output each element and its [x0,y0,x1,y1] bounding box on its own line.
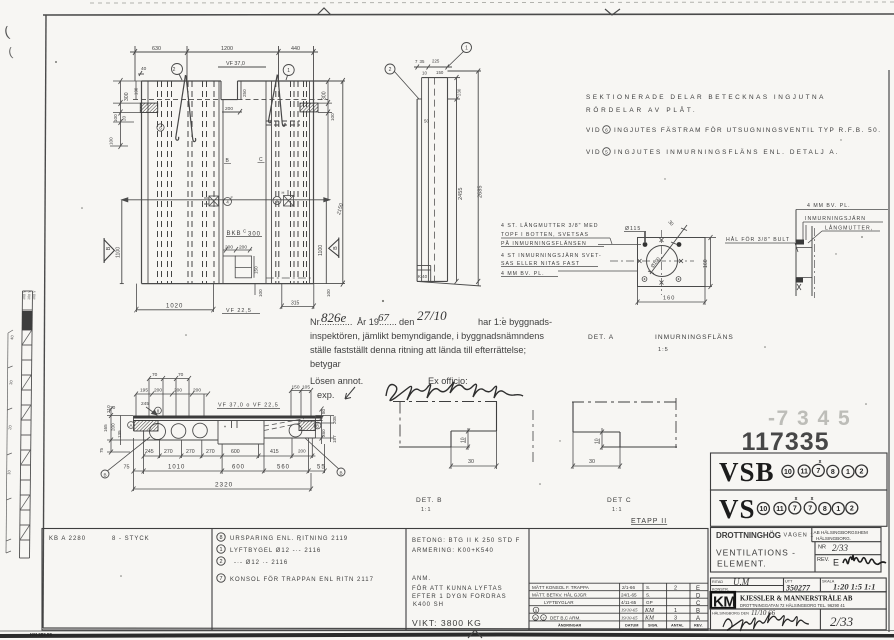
svg-text:4 MM BV. PL.: 4 MM BV. PL. [807,203,851,209]
svg-text:1: 1 [219,547,222,553]
svg-text:RITAD: RITAD [712,580,723,584]
svg-text:225: 225 [432,59,440,64]
right-side dim chain ticks [314,78,333,200]
svg-text:inspektören, jämlikt bemyndiga: inspektören, jämlikt bemyndigande, i byg… [310,331,544,341]
VF 37,0 underline [218,66,266,68]
svg-text:HÄLSINGBORG DEN: HÄLSINGBORG DEN [712,612,749,616]
svg-text:MÄTT. BETKV. HÅL GJGR: MÄTT. BETKV. HÅL GJGR [532,592,587,598]
svg-text:REV.: REV. [817,557,830,563]
svg-text:2: 2 [860,469,864,476]
center lines [610,230,694,295]
svg-text:250: 250 [242,89,247,97]
svg-text:BKB: BKB [227,231,242,237]
svg-text:5: 5 [605,150,608,156]
scan top edge dotted [90,2,894,3]
svg-text:SIGN.: SIGN. [648,624,658,628]
hatched right end [299,421,315,431]
svg-text:280: 280 [321,429,326,437]
svg-text:INGJUTES FÄSTRAM FÖR UTSUGN: INGJUTES FÄSTRAM FÖR UTSUGNINGSVENTIL TY… [614,126,882,134]
svg-text:B: B [103,472,106,477]
svg-text:KM: KM [713,594,735,611]
svg-text:8 - STYCK: 8 - STYCK [112,536,150,542]
svg-text:70: 70 [178,372,184,378]
svg-text:x: x [819,459,822,465]
dashed diagonals [264,419,304,431]
svg-text:PÅ INMURNINGSFLÄNSEN: PÅ INMURNINGSFLÄNSEN [501,240,587,247]
svg-text:VS: VS [719,494,756,524]
top dim line 630/1200/440 [130,51,318,53]
svg-text:200: 200 [298,449,306,454]
svg-text:KM: KM [644,616,655,622]
svg-text:2: 2 [173,67,176,73]
svg-text:,: , [540,617,541,622]
svg-text:30: 30 [468,459,474,465]
circled list [217,533,225,582]
svg-text:19/10-65: 19/10-65 [621,608,638,613]
top dim labels [141,46,300,112]
245 arrow [146,407,157,415]
svg-text:INMURNINGSFLÄNS: INMURNINGSFLÄNS [655,333,734,341]
top dim line [414,66,452,68]
hatched block left [140,103,157,112]
svg-text:80: 80 [321,408,326,414]
svg-text:30: 30 [589,459,595,465]
lifting loop right (inverted V with hooks) [269,75,278,123]
right dim 160 [705,235,716,289]
svg-text:U.M: U.M [733,577,750,587]
svg-text:VF 37,0 o VF 22,5: VF 37,0 o VF 22,5 [218,403,279,409]
svg-text:160: 160 [663,296,675,302]
svg-text:440: 440 [291,46,300,52]
svg-text:VSB: VSB [719,457,775,487]
bolt holes [643,242,648,247]
svg-text:VID: VID [586,149,601,156]
svg-text:E: E [833,558,839,568]
svg-text:208: 208 [332,416,337,424]
VSB box [711,453,888,526]
ruler left bracket line with ticks [6,330,13,553]
svg-text:VÄGEN 1: VÄGEN 1 [784,532,815,539]
svg-text:1: 1 [836,506,840,513]
exp arrow [345,387,355,399]
svg-text:LÅNGMUTTER,: LÅNGMUTTER, [825,225,873,232]
svg-text:HÅL FÖR 3/8" BULT: HÅL FÖR 3/8" BULT [726,236,790,243]
rotated dim labels [109,87,345,297]
scan bottom dark band [0,633,894,639]
svg-text:RÖRDELAR AV PLÅT.: RÖRDELAR AV PLÅT. [586,105,697,114]
svg-text:Ex officio:: Ex officio: [428,376,468,386]
circles [150,424,166,440]
dim row 1 below [142,438,316,474]
svg-text:270: 270 [164,449,173,455]
fold mark triangle top 1 [317,8,331,15]
svg-text:8: 8 [219,535,222,541]
notch 200 dim [222,111,242,113]
svg-text:DET B,C ARM.: DET B,C ARM. [550,616,581,621]
svg-text:4/11-65: 4/11-65 [621,600,637,605]
svg-text:C: C [243,229,247,234]
svg-text:75: 75 [124,465,130,471]
svg-text:BETONG: BTG II K 250 STD F: BETONG: BTG II K 250 STD F [412,538,520,544]
svg-text:315: 315 [291,301,300,307]
svg-text:ställe fastställt denna ritnin: ställe fastställt denna ritning att länd… [310,345,526,355]
svg-text:1: 1 [674,608,677,614]
40 dim ticks [138,73,144,75]
svg-text:GP: GP [646,600,653,605]
small circled refs on plan [155,407,162,414]
svg-text:1:1: 1:1 [612,507,623,513]
svg-text:300: 300 [124,92,130,101]
svg-text:100: 100 [330,113,335,121]
circled 1 [283,65,294,76]
svg-text:URSPARING ENL. RITNING 2119: URSPARING ENL. RITNING 2119 [230,536,348,542]
signature scrawl [723,613,809,631]
svg-text:ÄNDRINGAR: ÄNDRINGAR [558,624,581,628]
svg-text:8: 8 [831,469,835,476]
svg-text:KM: KM [644,608,655,614]
svg-text:160: 160 [703,259,709,268]
svg-text:4 ST. LÅNGMUTTER 3/8" MED: 4 ST. LÅNGMUTTER 3/8" MED [501,222,598,229]
svg-text:190: 190 [134,87,139,95]
detail A square [638,238,706,287]
left side dims [107,407,144,455]
svg-text:LYFTBYGLAR: LYFTBYGLAR [544,600,574,605]
svg-text:ELEMENT.: ELEMENT. [717,559,767,569]
svg-text:K 40: K 40 [418,274,428,279]
bottom dims [134,284,315,314]
svg-text:20: 20 [122,115,127,121]
right small dims [291,390,311,392]
svg-text:9: 9 [276,199,279,204]
fold mark bottom [468,630,482,638]
svg-text:den: den [399,317,414,327]
svg-text:B: B [316,424,319,429]
svg-text:4 ST INMURNINGSJÄRN SVET-: 4 ST INMURNINGSJÄRN SVET- [501,252,602,259]
ruler hatched block [22,311,32,330]
DROTTNINGHOG box [711,528,882,573]
lifting loop left (inverted V with hooks) [176,75,186,140]
svg-text:DET. B: DET. B [416,497,443,504]
svg-text:C: C [696,601,701,607]
insert symbol left web [204,196,232,206]
dim row 2 [132,438,327,491]
svg-text:200: 200 [174,388,182,394]
svg-text:165: 165 [103,424,108,432]
triangle marker B right (points left) [329,238,339,259]
svg-text:VENTILATIONS -: VENTILATIONS - [716,548,796,558]
outline left/right/bottom [141,81,143,284]
svg-text:1: 1 [287,68,290,74]
svg-text:exp.: exp. [317,390,334,400]
left end outline [133,416,135,432]
svg-text:SAS ELLER NITAS FAST: SAS ELLER NITAS FAST [501,261,580,267]
svg-text:DROTTNINGGATAN 72 HÄLSINGBOR: DROTTNINGGATAN 72 HÄLSINGBORG TEL. 96290… [740,603,846,608]
svg-text:E: E [696,586,700,592]
svg-text:200: 200 [225,106,233,112]
dim row 3: 2320 [132,473,314,492]
svg-text:ETAPP II: ETAPP II [631,518,667,525]
top dim rows [134,376,313,416]
svg-text:DET. A: DET. A [588,334,614,341]
right side dims [315,407,334,445]
svg-text:VIKT: 3800 KG: VIKT: 3800 KG [412,618,482,628]
svg-text:75: 75 [99,447,104,453]
signature squiggle [386,382,523,401]
svg-text:-·- Ø12 ·- 2116: -·- Ø12 ·- 2116 [234,560,288,566]
svg-text:1200: 1200 [221,46,233,52]
leader circles B [101,470,109,478]
svg-text:11/10 66: 11/10 66 [751,609,776,617]
svg-text:2/33: 2/33 [832,543,849,553]
svg-text:2: 2 [674,586,677,592]
RITAD / KONSTR row [711,578,887,592]
svg-text:1:5: 1:5 [658,347,669,353]
svg-text:1: 1 [846,469,850,476]
middle webs [218,81,220,284]
svg-text:NR: NR [818,545,826,551]
mid 1100-dim line with arrows [120,78,345,287]
hatched left end [134,421,158,432]
svg-text:AB HÄLSINGBORGSHEM: AB HÄLSINGBORGSHEM [814,529,869,535]
svg-text:10: 10 [422,71,427,76]
svg-text:210: 210 [106,405,111,413]
svg-text:200: 200 [154,388,162,394]
svg-text:270: 270 [206,449,215,455]
ruler diagonal cells [20,330,32,540]
svg-text:C: C [259,157,263,163]
svg-text:2: 2 [850,506,854,513]
svg-text:8: 8 [823,506,827,513]
svg-text:K400 SH: K400 SH [413,602,444,608]
svg-text:A: A [130,423,133,428]
svg-text:27/10: 27/10 [417,308,447,323]
svg-text:2/33: 2/33 [830,614,854,629]
svg-text:2320: 2320 [215,482,233,489]
svg-text:B: B [333,246,339,250]
svg-text:11: 11 [776,506,784,513]
circled 6 on left block [157,124,164,131]
svg-text:1:1: 1:1 [421,507,432,513]
svg-text:DATUM: DATUM [625,624,638,628]
svg-text:100: 100 [326,289,331,297]
circled 2 [172,64,183,75]
svg-text:B: B [696,609,700,615]
svg-text:INMURNINGSJÄRN: INMURNINGSJÄRN [805,215,866,222]
svg-text:A: A [696,616,700,622]
section dashed center [434,78,436,282]
insert symbol right web [273,190,294,206]
svg-text:VF 22,5: VF 22,5 [226,308,252,314]
dashed band right block [266,120,300,122]
svg-text:3: 3 [674,616,677,622]
svg-text:11: 11 [800,469,808,476]
svg-text:S.: S. [646,593,650,598]
svg-text:Lösen annot.: Lösen annot. [310,376,363,386]
svg-text:SEKTIONERADE DELAR BETECKNA: SEKTIONERADE DELAR BETECKNAS INGJUTNA [586,94,826,101]
svg-text:har 1:e byggnads-: har 1:e byggnads- [478,317,552,327]
hidden line at notch level [133,99,219,101]
svg-text:7: 7 [793,506,797,513]
svg-text:2/1-66: 2/1-66 [622,585,635,590]
svg-text:19/10-65: 19/10-65 [621,615,638,620]
svg-text:VF 37,0: VF 37,0 [226,61,245,67]
svg-text:1010: 1010 [168,465,185,471]
svg-text:TOPF I BOTTEN, SVETSAS: TOPF I BOTTEN, SVETSAS [501,232,589,238]
svg-text:10: 10 [784,469,792,476]
KM row [711,592,887,609]
svg-text:24/1-65: 24/1-65 [621,593,637,598]
svg-text:150: 150 [254,266,259,274]
revision table [529,583,708,630]
left-side dim chain [110,78,142,149]
svg-text:200: 200 [239,245,247,251]
svg-text:4: 4 [226,200,229,205]
fold dash-dot between B and C [532,410,534,464]
svg-text:betygar: betygar [310,359,341,369]
svg-text:MÄTT KONSOL F. TRAPPA: MÄTT KONSOL F. TRAPPA [532,584,590,590]
svg-text:VID: VID [586,127,601,134]
svg-text:40: 40 [141,66,147,72]
svg-text:B: B [339,470,342,475]
dim 230 [456,78,458,282]
svg-text:150: 150 [436,70,444,75]
svg-text:826e: 826e [321,310,347,325]
svg-text:630: 630 [152,46,161,52]
dashed internal verticals [158,81,307,284]
svg-text:200: 200 [111,423,116,431]
svg-text:KB A 2280: KB A 2280 [49,536,86,542]
svg-text:67: 67 [378,312,390,324]
svg-text:10: 10 [760,506,768,513]
svg-text:ARMERING: K00+K540: ARMERING: K00+K540 [412,548,494,554]
svg-text:245: 245 [141,401,149,407]
svg-text:270: 270 [186,449,195,455]
svg-text:6: 6 [159,126,162,131]
svg-text:117335: 117335 [742,428,830,456]
svg-text:HÄLSINGBORG.: HÄLSINGBORG. [816,535,851,541]
svg-text:1100: 1100 [318,245,324,256]
svg-text:560: 560 [277,465,290,471]
svg-text:DROTTNINGHÖG: DROTTNINGHÖG [716,531,782,540]
svg-text:10: 10 [595,438,601,444]
svg-text:6: 6 [605,128,608,134]
svg-text:7: 7 [219,576,222,582]
svg-text:INGJUTES INMURNINGSFLÄNS ENL: INGJUTES INMURNINGSFLÄNS ENL. DETALJ A. [614,148,840,156]
svg-text:Ø115: Ø115 [625,226,641,232]
svg-text:1:20 1:5 1:1: 1:20 1:5 1:1 [833,582,876,592]
svg-text:2455: 2455 [458,188,464,200]
svg-text:FÖR ATT KUNNA LYFTAS: FÖR ATT KUNNA LYFTAS [412,585,503,592]
svg-text:REV.: REV. [694,624,703,628]
bottom step detail [223,247,254,278]
svg-text:100: 100 [109,137,114,145]
svg-text:415: 415 [270,449,279,455]
svg-text:55: 55 [317,465,326,471]
dim 2685 [477,71,479,286]
svg-text:DET C: DET C [607,497,632,504]
svg-text:1100: 1100 [116,247,122,258]
svg-text:200: 200 [193,388,201,394]
svg-text:7: 7 [808,506,812,513]
svg-text:4 MM BV. PL.: 4 MM BV. PL. [501,271,545,277]
fold mark v top 2 [605,9,620,15]
svg-text:x: x [811,496,814,502]
svg-text:245: 245 [145,449,154,455]
svg-text:135: 135 [117,430,122,438]
svg-text:KJESSLER & MANNERSTRÅLE AB: KJESSLER & MANNERSTRÅLE AB [740,595,853,603]
svg-text:230: 230 [457,88,462,96]
rev signature scrawl [843,555,886,564]
leaders to circles [448,51,465,67]
svg-text:150: 150 [292,385,300,391]
svg-text:195: 195 [140,388,148,394]
dash-dot near bottom right [266,277,314,279]
svg-text:105: 105 [302,385,310,391]
triangle marker B left (points right) [104,238,114,263]
svg-text:1020: 1020 [166,304,183,310]
svg-text:H: H [282,190,285,195]
diagonal dim [648,225,687,274]
svg-text:100: 100 [258,289,263,297]
svg-text:50: 50 [424,119,429,124]
svg-text:157: 157 [332,435,337,443]
svg-text:-7 3 4 5: -7 3 4 5 [768,407,851,430]
svg-text:300: 300 [322,91,328,100]
scan specks [55,61,867,577]
svg-text:350277: 350277 [785,584,811,593]
svg-text:7: 7 [816,468,820,475]
small verticals in middle [231,421,233,429]
svg-text:1: 1 [465,46,468,52]
svg-text:KONSOL FÖR TRAPPAN ENL RITN: KONSOL FÖR TRAPPAN ENL RITN 2117 [230,576,374,583]
svg-text:ANM.: ANM. [412,576,431,582]
svg-text:100: 100 [113,114,118,122]
svg-text:35: 35 [420,59,425,64]
svg-text:600: 600 [231,449,240,455]
svg-text:2: 2 [219,559,222,565]
svg-text:S.: S. [646,585,650,590]
svg-text:600: 600 [232,465,245,471]
svg-text:70: 70 [152,372,158,378]
svg-text:2685: 2685 [478,186,484,198]
svg-text:KM 282.59: KM 282.59 [30,632,53,637]
svg-text:x: x [795,496,798,502]
element top edge [142,80,222,82]
svg-text:ANTAL: ANTAL [671,624,684,628]
bottom dim 160 [636,287,708,306]
bottom row [711,609,887,630]
svg-text:2: 2 [389,67,392,73]
250 dim [240,81,242,100]
x marks [638,238,684,285]
svg-text:200: 200 [225,245,233,251]
hatched block right [300,103,318,112]
svg-text:EFTER 1 DYGN FORDRAS: EFTER 1 DYGN FORDRAS [412,594,507,600]
svg-text:10: 10 [461,437,467,443]
svg-text:D: D [696,594,701,600]
svg-text:LYFTBYGEL Ø12 -·- 2116: LYFTBYGEL Ø12 -·- 2116 [230,548,321,554]
top notch [220,81,222,100]
heavy top edge [133,416,323,419]
svg-text:År 19.......: År 19....... [357,317,397,327]
svg-text:B: B [106,246,112,250]
